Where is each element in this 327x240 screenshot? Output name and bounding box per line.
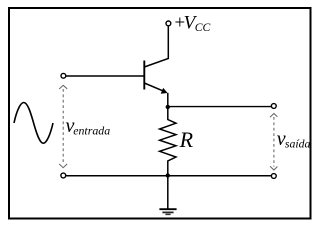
transistor Q1 emitter with arrow — [144, 83, 162, 91]
wire collector to VCC — [144, 26, 168, 67]
wire node to output — [168, 106, 272, 108]
resistor R — [160, 107, 176, 176]
ground — [159, 209, 176, 214]
wire bottom rail — [66, 175, 272, 177]
terminal input top — [61, 73, 66, 78]
terminal output bottom — [271, 174, 276, 179]
svg-text:R: R — [179, 127, 194, 152]
terminal +VCC — [166, 21, 171, 26]
source sine wave — [14, 103, 53, 144]
dimension arrow v_entrada — [59, 85, 67, 167]
wire to ground — [167, 176, 169, 210]
terminal output top — [271, 104, 276, 109]
dimension arrow v_saida — [270, 114, 277, 171]
wire base input — [66, 75, 145, 77]
node emitter junction — [166, 105, 170, 109]
terminal input bottom — [61, 173, 66, 178]
node ground junction — [166, 173, 170, 177]
wire emitter down to node — [167, 93, 169, 107]
transistor Q1 base bar — [143, 61, 145, 90]
